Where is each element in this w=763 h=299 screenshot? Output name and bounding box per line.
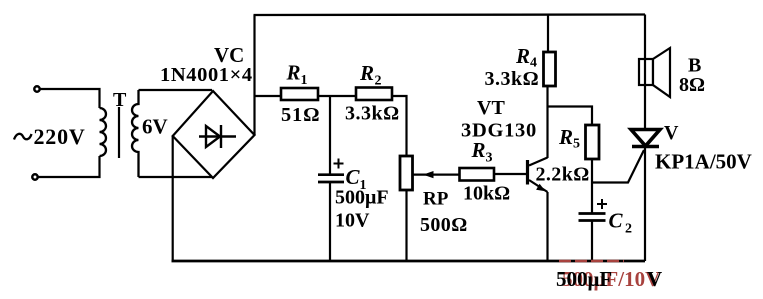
svg-text:V: V [664,122,679,144]
svg-text:500Ω: 500Ω [420,214,468,236]
svg-text:RP: RP [423,189,449,210]
svg-text:VT: VT [477,97,505,119]
svg-text:R: R [286,61,301,85]
wire top rail [254,13,646,16]
potentiometer RP body [400,156,413,190]
svg-text:R: R [515,44,530,68]
wire bottom rail [172,260,646,263]
svg-text:3.3kΩ: 3.3kΩ [485,68,540,90]
wire C1 down [329,183,331,261]
wire C2 down [591,222,593,262]
wire secondary bottom to bridge bottom corner [139,176,214,178]
wire thyristor cathode down [644,148,646,261]
thyristor V [631,130,660,147]
C1 plus sign [334,163,344,165]
RP wiper arrow and wire to R3 [413,174,460,176]
wire emitter down to rail [546,192,548,261]
svg-text:2: 2 [375,74,382,89]
wire collector up to R4 [546,86,548,158]
wire collector branch to R5 [548,107,593,126]
speaker B [639,59,653,85]
svg-text:2: 2 [625,222,632,237]
red dashes on bottom rail [559,260,624,262]
wire R5 down to C2 [591,159,593,213]
svg-text:2.2kΩ: 2.2kΩ [536,164,590,186]
svg-text:1N4001×4: 1N4001×4 [160,64,253,86]
svg-text:10V: 10V [335,210,370,232]
svg-text:51Ω: 51Ω [281,104,320,126]
label ~220V tilde [14,134,32,140]
svg-text:R: R [359,61,374,85]
transistor VT emitter with arrow [529,180,548,192]
svg-text:C: C [609,209,624,233]
node C1 junction, wire down to C1 [329,96,331,174]
transistor VT base bar [526,160,529,185]
svg-text:R: R [471,138,486,162]
transformer T secondary winding [132,90,139,177]
svg-text:1: 1 [301,73,308,88]
resistor R5 [586,125,600,159]
svg-text:T: T [113,89,127,111]
svg-text:500μF: 500μF [335,187,389,209]
wire bridge minus down to bottom rail [172,136,174,261]
transformer T primary winding [100,108,107,156]
capacitor C1 plates [318,173,344,176]
resistor R3 [460,168,495,181]
svg-text:500μF: 500μF [556,267,612,291]
svg-text:3.3kΩ: 3.3kΩ [345,103,400,125]
wire R4 top to rail [547,15,549,53]
transistor VT collector [529,158,548,166]
wire speaker feed down to thyristor [644,15,646,131]
resistor R4 [544,52,556,86]
svg-text:R: R [558,125,573,149]
transformer core [118,107,120,158]
wire secondary top to bridge top corner [139,89,213,91]
svg-text:6V: 6V [142,115,168,139]
svg-text:10kΩ: 10kΩ [463,183,510,205]
resistor R2 [356,88,392,101]
C2 plus sign [597,203,607,205]
svg-text:5: 5 [573,137,580,152]
wire R1 to R2 [318,95,356,97]
wire plus to R1 [255,95,282,97]
wire bridge plus up to top rail [253,15,255,135]
svg-text:V: V [647,267,662,291]
wire R2 to RP [392,96,407,156]
wire R3 to base [494,173,526,175]
svg-text:220V: 220V [34,124,86,149]
capacitor C2 plates [579,212,606,215]
bridge rectifier VC diamond [173,91,255,178]
svg-text:8Ω: 8Ω [679,74,705,96]
svg-text:3: 3 [486,151,493,166]
svg-text:KP1A/50V: KP1A/50V [655,150,752,174]
terminal top-left [34,86,39,91]
wire RP down [405,190,407,261]
svg-text:3DG130: 3DG130 [461,120,537,142]
diode inside bridge [199,125,236,148]
svg-text:C: C [346,165,361,189]
wire [40,89,100,108]
wire [38,156,100,177]
resistor R1 [281,88,318,100]
wire gate branch [592,150,644,183]
terminal bottom-left [32,174,37,179]
